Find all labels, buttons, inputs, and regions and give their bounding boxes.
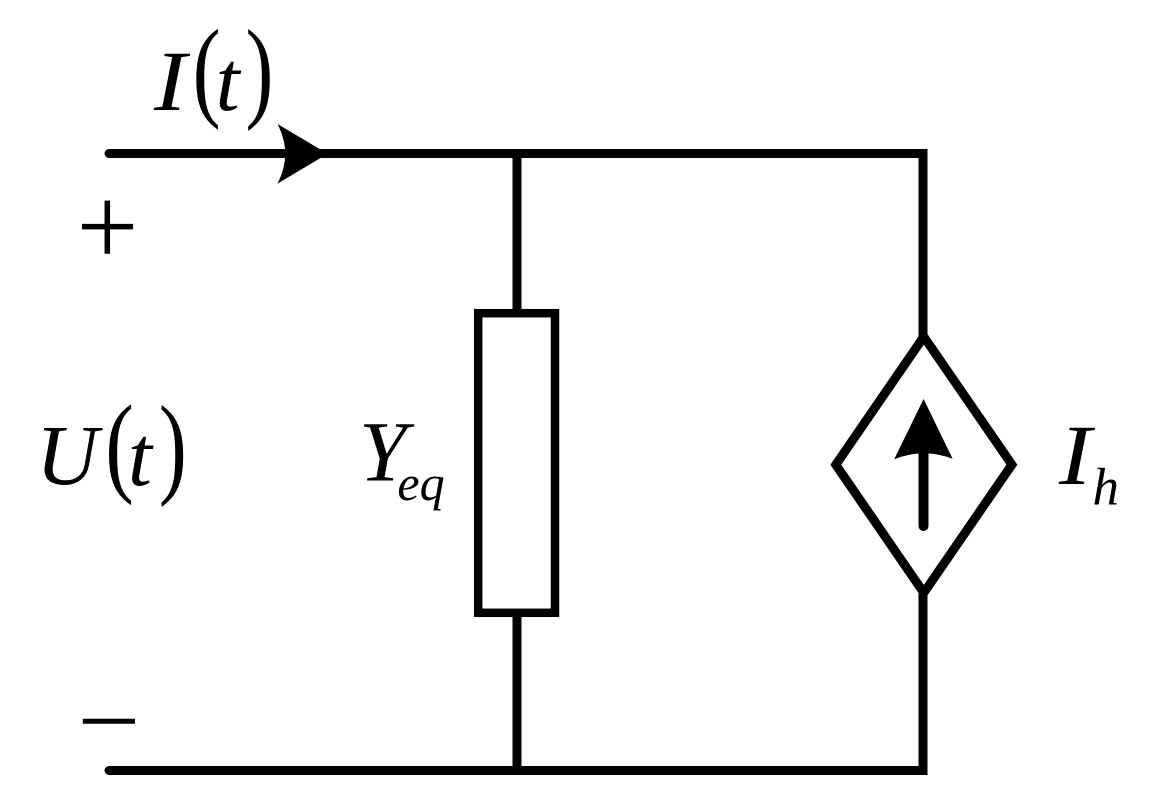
arrowhead inside current source — [894, 399, 952, 459]
label I(t): letter I — [153, 33, 191, 129]
label U(t): right paren — [159, 384, 187, 507]
current source Ih (diamond) — [836, 337, 1012, 593]
svg-text:I: I — [1058, 407, 1096, 503]
wire: middle vertical branch — [513, 154, 522, 771]
minus sign — [83, 719, 135, 724]
wire: outer loop (top wire, right vertical wire, bottom wire) — [109, 154, 923, 771]
arrowhead: current direction I(t) on top wire — [278, 124, 328, 184]
svg-text:): ) — [159, 384, 187, 507]
svg-text:eq: eq — [397, 455, 444, 511]
svg-text:h: h — [1093, 459, 1120, 517]
svg-text:t: t — [128, 408, 154, 504]
label I(t): right paren — [246, 9, 274, 132]
arrow shaft inside current source — [919, 452, 929, 526]
svg-text:U: U — [36, 407, 103, 503]
resistor Yeq (box) — [478, 313, 555, 613]
svg-text:I: I — [153, 33, 191, 129]
svg-text:): ) — [246, 9, 274, 132]
label Ih: letter I — [1058, 407, 1096, 503]
plus sign — [82, 201, 133, 254]
label U(t): left paren — [105, 382, 134, 506]
label I(t): left paren — [193, 8, 221, 131]
svg-text:t: t — [216, 33, 242, 129]
